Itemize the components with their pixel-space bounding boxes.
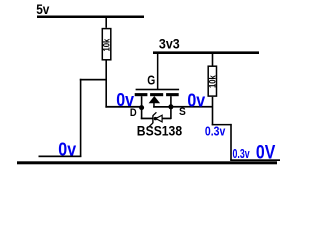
mosfet drain pin xyxy=(141,96,143,119)
junction dot source xyxy=(168,104,173,109)
body diode wire right xyxy=(162,118,171,120)
3v3 power rail xyxy=(153,51,259,54)
svg-text:G: G xyxy=(147,74,155,88)
resistor R1 xyxy=(102,29,113,60)
wire R2 bottom xyxy=(212,97,214,126)
wire input vertical xyxy=(80,79,82,157)
mosfet body arrow xyxy=(149,96,161,103)
svg-text:10k: 10k xyxy=(208,75,219,88)
svg-text:0V: 0V xyxy=(256,142,275,164)
mosfet body stem xyxy=(153,103,155,108)
wire R2 top xyxy=(212,54,214,66)
mosfet drain bar xyxy=(135,93,148,96)
body diode triangle xyxy=(156,115,162,122)
junction dot drain xyxy=(139,105,144,110)
svg-text:3v3: 3v3 xyxy=(159,36,180,52)
wire 0v step bottom-left xyxy=(39,156,82,158)
resistor R2 xyxy=(208,66,219,96)
wire body to source xyxy=(153,106,171,108)
wire step right horizontal xyxy=(212,124,232,126)
body diode junction dot xyxy=(154,117,157,120)
svg-text:5v: 5v xyxy=(36,1,49,17)
5v power rail xyxy=(37,16,144,19)
svg-text:0.3v: 0.3v xyxy=(205,124,226,139)
svg-text:BSS138: BSS138 xyxy=(137,124,183,139)
mosfet body bar xyxy=(150,93,163,96)
wire gate vertical xyxy=(157,54,159,89)
body diode wire left xyxy=(141,118,153,120)
wire source horizontal xyxy=(171,106,213,108)
wire branch horizontal xyxy=(80,79,107,81)
wire 0v baseline bottom-right xyxy=(230,159,280,161)
mosfet source pin xyxy=(170,96,172,119)
svg-text:0v: 0v xyxy=(187,89,205,110)
wire step down vertical xyxy=(230,124,232,161)
mosfet U1 gate plate xyxy=(136,89,180,91)
wire R1 bottom xyxy=(105,61,107,108)
svg-text:S: S xyxy=(179,106,186,118)
wire R1 top xyxy=(105,18,107,28)
body diode cathode bar xyxy=(149,112,156,126)
mosfet source bar xyxy=(166,93,179,96)
ground rail xyxy=(17,161,277,164)
svg-text:10k: 10k xyxy=(102,38,113,51)
svg-text:D: D xyxy=(130,107,137,119)
svg-text:0.3v: 0.3v xyxy=(233,146,251,161)
wire drain horizontal xyxy=(105,106,142,108)
